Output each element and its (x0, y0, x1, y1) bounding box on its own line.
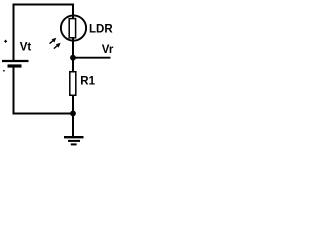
LDR resistor body (69, 19, 75, 38)
wire node to ground (72, 114, 74, 137)
ground (64, 137, 84, 144)
wire Vr tap (73, 57, 111, 59)
battery minus sign (3, 70, 5, 72)
LDR light arrow 2 (54, 43, 61, 49)
svg-text:LDR: LDR (89, 24, 113, 36)
wire left vertical upper (13, 4, 15, 61)
svg-text:Vr: Vr (102, 44, 114, 56)
LDR circle (61, 15, 86, 40)
wire R1 to bottom node (72, 95, 74, 114)
battery Vt positive plate (2, 60, 29, 62)
wire left vertical lower (13, 66, 15, 115)
svg-text:R1: R1 (80, 76, 95, 88)
battery Vt negative plate (8, 64, 22, 67)
resistor R1 (70, 72, 76, 96)
wire bottom horizontal (13, 113, 74, 115)
node bottom junction (70, 111, 76, 117)
node Vr junction (70, 55, 76, 61)
svg-text:Vt: Vt (20, 42, 32, 54)
wire LDR to R1 (72, 58, 74, 72)
wire right vertical from top to LDR (72, 4, 74, 58)
battery plus sign (4, 40, 7, 43)
LDR light arrow 1 (50, 38, 57, 44)
wire top horizontal (13, 4, 75, 6)
